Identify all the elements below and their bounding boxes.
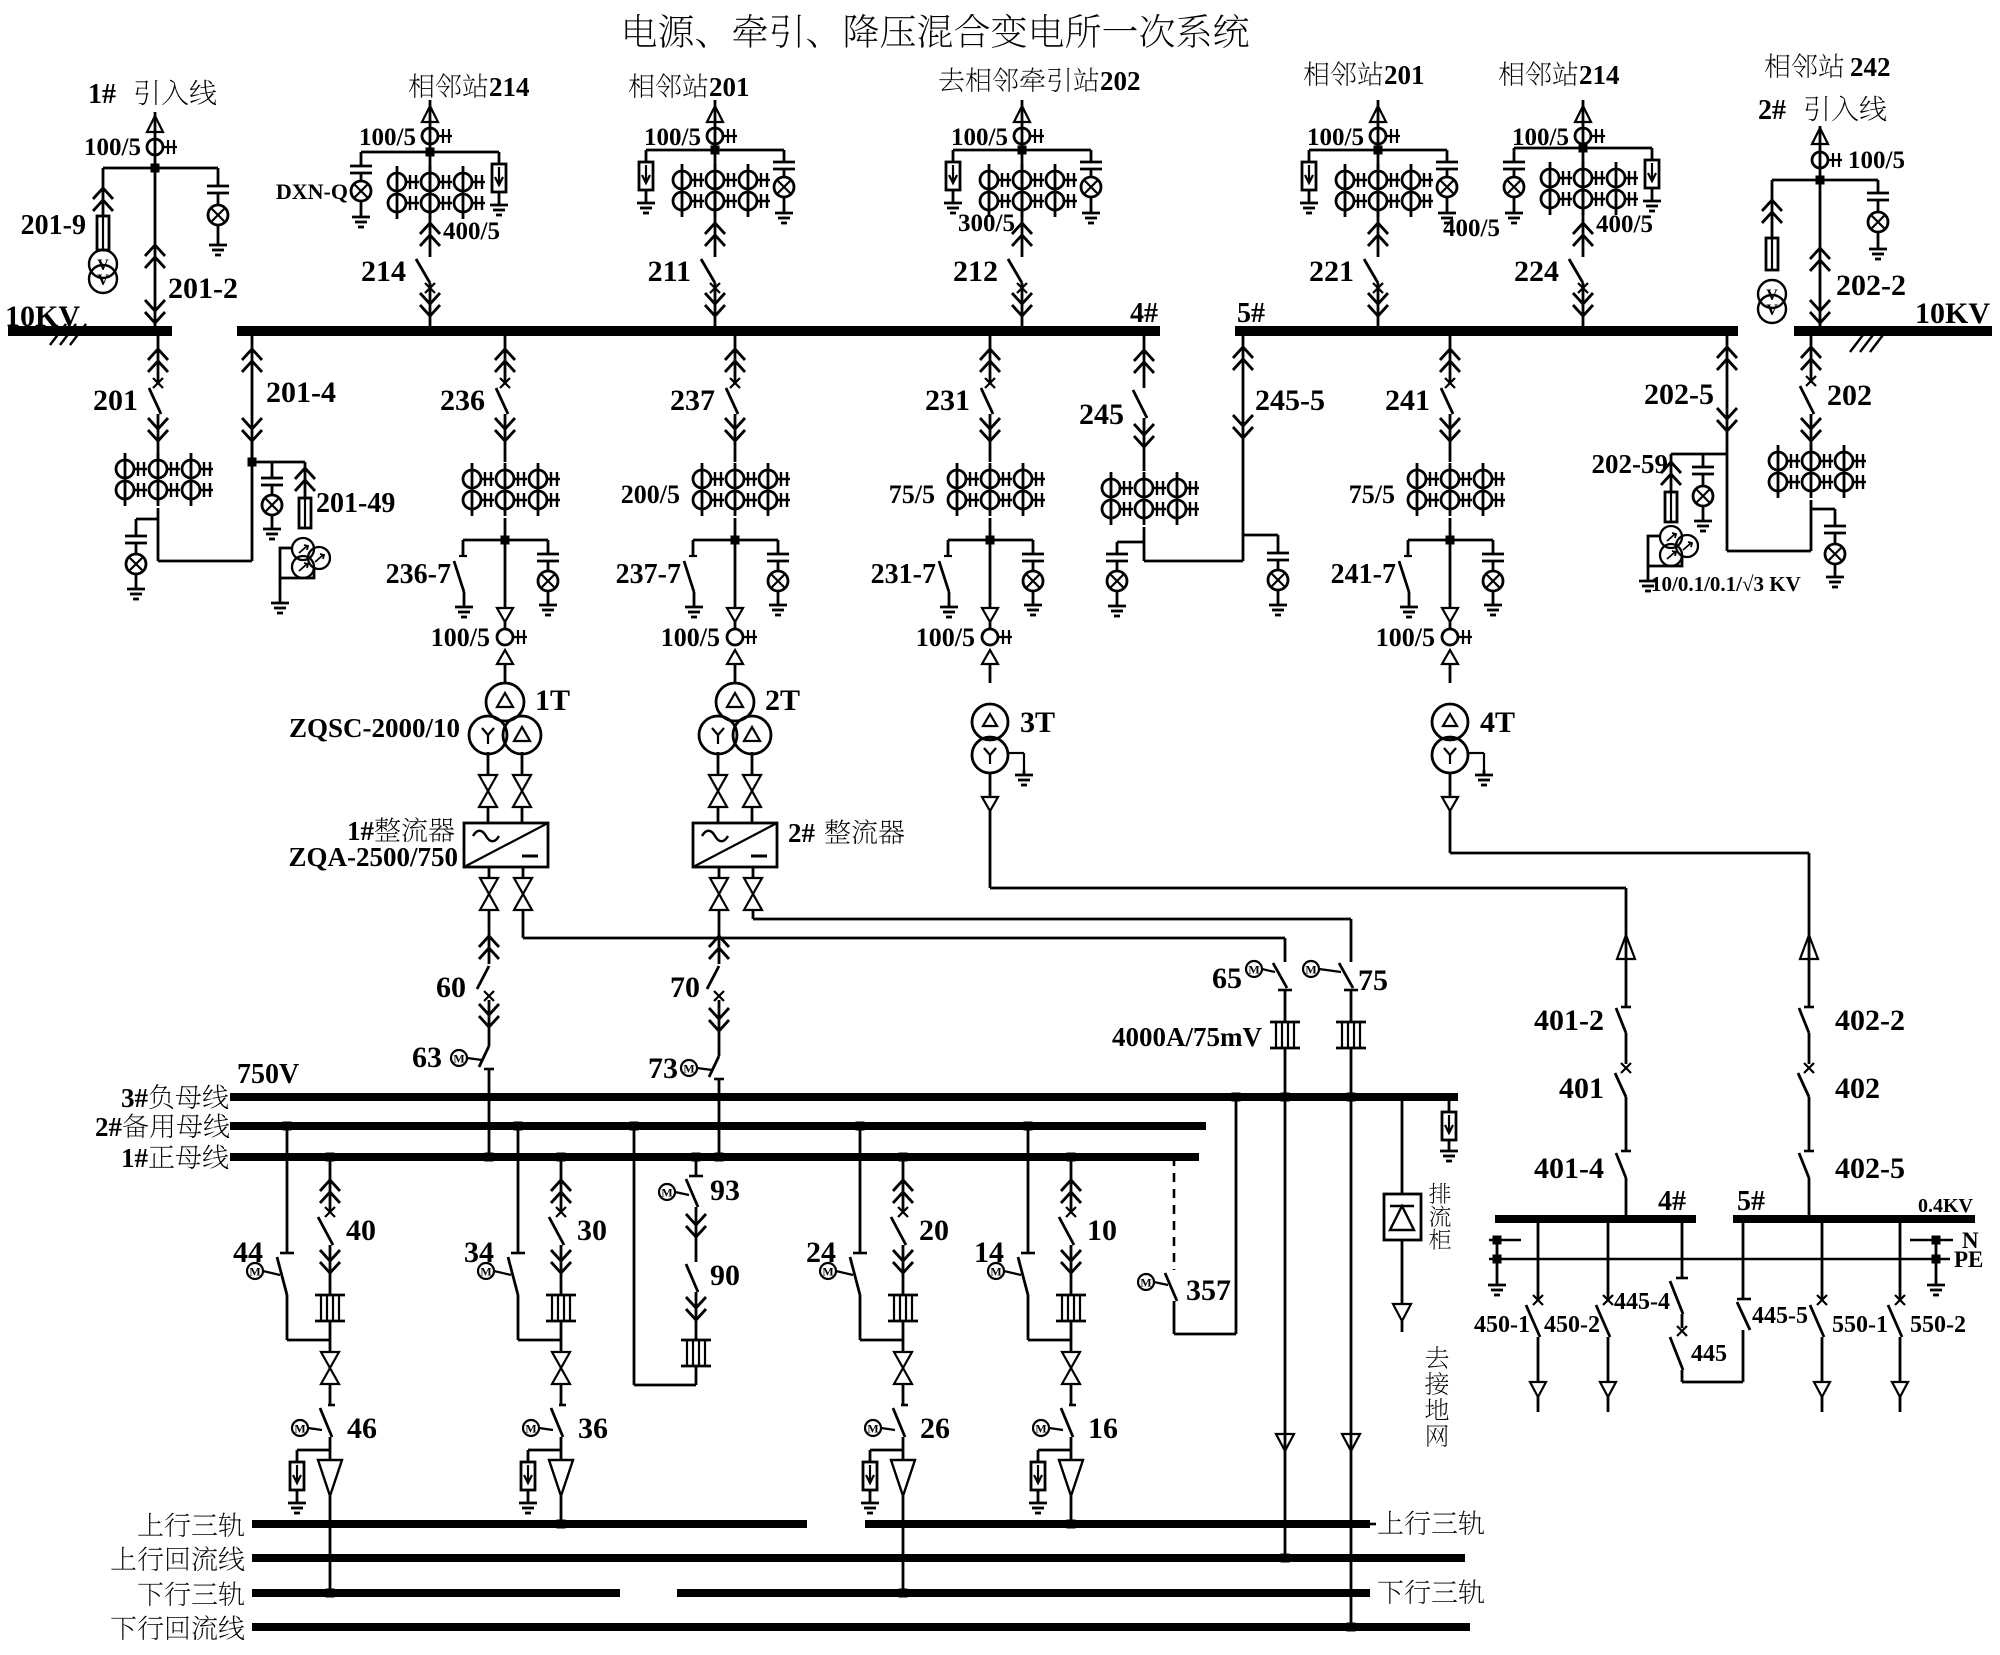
node on 1# bus: [715, 1153, 724, 1162]
motor link 24: [836, 1271, 853, 1275]
withdrawable contact down 60: [479, 1004, 499, 1015]
wire: [1090, 170, 1093, 176]
svg-text:550-2: 550-2: [1910, 1312, 1966, 1338]
lamp: [1693, 486, 1713, 506]
withdrawable contact down 245-5: [1233, 415, 1253, 426]
wire 10 below shunt: [1070, 1321, 1073, 1352]
withdrawable contact down 20: [893, 1250, 913, 1261]
label 下行回流线: [111, 1616, 136, 1640]
breaker 93 contact bar: [689, 1175, 703, 1178]
4T neutral ground: [1468, 752, 1484, 754]
wire: [989, 622, 992, 629]
wire: [1899, 1397, 1902, 1412]
svg-text:212: 212: [953, 255, 998, 288]
wire 201-4 down: [251, 441, 254, 561]
arrester: [1031, 1462, 1045, 1490]
wire 237: [734, 540, 737, 608]
wire branch: [645, 150, 648, 162]
feeder 44 wire: [286, 1126, 289, 1253]
withdrawable contact down 221: [1368, 293, 1388, 304]
svg-text:M: M: [1305, 963, 1316, 977]
capacitor: [537, 553, 559, 556]
wire rectifier2 to shunt 75: [752, 910, 755, 919]
svg-text:211: 211: [648, 255, 691, 288]
svg-text:236: 236: [440, 384, 485, 417]
wire 237-7 to ground: [693, 592, 696, 602]
svg-text:2T: 2T: [765, 684, 800, 717]
wire 4T output to 402: [1808, 853, 1811, 935]
svg-text:231-7: 231-7: [871, 559, 936, 590]
svg-text:M: M: [822, 1265, 833, 1279]
branch wire lamp 245-5: [1243, 534, 1278, 537]
motor link 75: [1319, 969, 1341, 972]
wire 231: [989, 540, 992, 608]
svg-text:10: 10: [1087, 1214, 1117, 1247]
node PE right: [1932, 1255, 1941, 1264]
contact bar 231-7: [944, 555, 952, 557]
CT cluster 245: [1110, 472, 1113, 525]
withdrawable contact down 236: [495, 418, 515, 429]
withdrawable contact down 201-4: [242, 418, 262, 429]
wire 46: [329, 1437, 332, 1460]
arrowhead down 450-2: [1600, 1382, 1616, 1397]
svg-text:402: 402: [1835, 1072, 1880, 1105]
svg-text:401-4: 401-4: [1534, 1152, 1604, 1185]
motor link 357: [1154, 1282, 1168, 1285]
node on rail: [557, 1520, 566, 1529]
breaker 445-4 blade: [1670, 1281, 1683, 1314]
x contact 221: [1373, 283, 1383, 293]
svg-text:ZQSC-2000/10: ZQSC-2000/10: [289, 713, 460, 743]
feeder 237 wire from bus: [734, 331, 737, 383]
CT cluster 236: [471, 463, 474, 516]
wire: [217, 194, 220, 204]
withdrawable contact down 93: [686, 1214, 706, 1225]
ground: [1090, 208, 1093, 213]
x contact 211: [710, 283, 720, 293]
svg-text:73: 73: [648, 1052, 678, 1085]
node PE left: [1493, 1255, 1502, 1264]
svg-text:202-5: 202-5: [1644, 378, 1714, 411]
CT cluster 224: [1549, 162, 1552, 215]
svg-text:16: 16: [1088, 1412, 1118, 1445]
withdrawable contact up 20: [893, 1180, 913, 1191]
x contact 40: [325, 1207, 335, 1217]
node on rail: [899, 1589, 908, 1598]
motor link 34: [494, 1271, 511, 1275]
svg-text:46: 46: [347, 1412, 377, 1445]
svg-text:36: 36: [578, 1412, 608, 1445]
branch wire: [693, 539, 778, 542]
ground: [1651, 196, 1654, 201]
wire 245 down: [1143, 527, 1146, 561]
feeder 10 wire: [1070, 1157, 1073, 1180]
wire: [1449, 622, 1452, 629]
wire 357 to 3# bus: [1173, 1301, 1176, 1334]
drawout bowtie 30: [552, 1352, 570, 1368]
svg-text:2#: 2#: [1758, 95, 1786, 126]
wire 236: [504, 540, 507, 608]
branch wire 211: [646, 149, 784, 152]
wire 4T to 402: [1449, 811, 1452, 853]
wire 237-7: [692, 540, 695, 556]
withdrawable contact down 245: [1134, 424, 1154, 435]
wire 245: [1143, 418, 1146, 471]
withdrawable contact down 70: [709, 1008, 729, 1019]
wire 14 join: [1027, 1295, 1030, 1340]
lamp: [1081, 177, 1101, 197]
junction node 221: [1374, 146, 1383, 155]
svg-text:90: 90: [710, 1259, 740, 1292]
wire 24 join: [859, 1295, 862, 1340]
feeder 40 outgoing arrow: [318, 1460, 342, 1496]
svg-text:400/5: 400/5: [1443, 215, 1500, 242]
withdrawable contact down 212: [1012, 293, 1032, 304]
svg-text:63: 63: [412, 1041, 442, 1074]
LV feeder 550-1 wire: [1821, 1223, 1824, 1300]
wire cap branch 202-5: [1702, 454, 1705, 468]
withdrawable contact up 201: [148, 349, 168, 360]
wire 202 below cluster: [1810, 500, 1813, 551]
wire: [777, 562, 780, 570]
disconnector 402 blade: [1798, 1073, 1809, 1097]
shunt 20: [888, 1294, 918, 1297]
arrester: [863, 1462, 877, 1490]
svg-text:DXN-Q: DXN-Q: [276, 179, 348, 204]
breaker 65 contact bar: [1278, 989, 1292, 992]
wire: [488, 1000, 491, 1046]
VT frame: [1648, 536, 1682, 566]
withdrawable contact up 201-4: [242, 349, 262, 360]
wire cap branch: [271, 462, 274, 479]
junction node 231-7 head: [986, 536, 995, 545]
motor link 36: [539, 1428, 553, 1430]
breaker 36 contact bar: [559, 1404, 566, 1407]
label 上行回流线: [111, 1547, 136, 1570]
CT 100/5 224: [1575, 128, 1591, 144]
capacitor: [767, 553, 789, 556]
wire 236-7 to ground: [463, 592, 466, 602]
LV feeder 550-2 wire: [1899, 1223, 1902, 1300]
wire 241 to junction: [1449, 518, 1452, 540]
wire 10: [1070, 1245, 1073, 1295]
feeder 201 wire from bus: [157, 331, 160, 383]
branch wire 224: [1514, 147, 1652, 150]
wire 1T outputs: [487, 752, 490, 775]
ground: [1032, 600, 1035, 605]
wire shunt to 3# bus: [1350, 1048, 1353, 1097]
svg-text:M: M: [525, 1422, 536, 1436]
drawout contact down: [727, 608, 743, 622]
wire: [1537, 1397, 1540, 1412]
wire: [1607, 1397, 1610, 1412]
shunt 75: [1336, 1021, 1366, 1024]
wire: [777, 592, 780, 600]
CT cluster 202: [1777, 445, 1780, 498]
wire right branch: [547, 540, 550, 555]
motor link 93: [675, 1192, 689, 1195]
node on 2# bus: [630, 1122, 639, 1131]
ground: [1446, 208, 1449, 213]
breaker 450-1 blade: [1526, 1305, 1540, 1337]
x contact 212: [1017, 283, 1027, 293]
wire 4T output: [1449, 773, 1452, 797]
drawout bowtie: [709, 775, 727, 791]
svg-text:357: 357: [1186, 1274, 1231, 1307]
junction node 241-7 head: [1446, 536, 1455, 545]
CT 100/5 221: [1370, 128, 1386, 144]
motor 14: [988, 1263, 1004, 1279]
wire 236 to junction: [504, 518, 507, 540]
wire: [1877, 233, 1880, 244]
wire: [1821, 1397, 1824, 1412]
svg-text:ZQA-2500/750: ZQA-2500/750: [288, 842, 458, 872]
ground: [1877, 244, 1880, 249]
wire 65 column: [1284, 938, 1287, 962]
svg-text:4T: 4T: [1480, 706, 1515, 739]
x contact 30: [556, 1207, 566, 1217]
label 相邻站201 left: [629, 74, 654, 98]
wire: [1492, 592, 1495, 600]
wire 2T outputs: [717, 752, 720, 775]
rectifier 2 output wires: [718, 867, 721, 878]
capacitor: [1482, 553, 1504, 556]
withdrawable contact down 202: [1801, 418, 1821, 429]
wire 201-9 branch: [102, 168, 105, 216]
lamp: [1107, 571, 1127, 591]
voltage transformer VV 201-9: [89, 250, 117, 278]
LV feeder 450-2 wire: [1607, 1223, 1610, 1300]
label 去相邻牵引站202: [939, 67, 964, 91]
wire branch: [360, 152, 363, 166]
wire: [1537, 1337, 1540, 1382]
lamp: [1437, 177, 1457, 197]
withdrawable contact up 202-2: [1810, 248, 1830, 259]
breaker 65 blade: [1273, 963, 1287, 988]
withdrawable contact up 60: [479, 936, 499, 947]
lamp: [1504, 177, 1524, 197]
arrester: [639, 162, 653, 190]
arrester: [290, 1462, 304, 1490]
svg-text:400/5: 400/5: [443, 218, 500, 245]
x contact 10: [1066, 1207, 1076, 1217]
node feeder 44 on 2# bus: [283, 1122, 292, 1131]
x contact 401: [1621, 1063, 1631, 1073]
withdrawable contact up 202-5: [1717, 347, 1737, 358]
motor 357: [1138, 1274, 1154, 1290]
wire: [1607, 1337, 1610, 1382]
drawout contact: [1393, 1304, 1411, 1321]
disconnector 211 blade: [701, 259, 715, 283]
svg-text:65: 65: [1212, 962, 1242, 995]
node feeder 14 on 2# bus: [1024, 1122, 1033, 1131]
arrester branch 46: [297, 1449, 330, 1452]
svg-text:5#: 5#: [1737, 1186, 1765, 1217]
svg-text:450-2: 450-2: [1544, 1312, 1600, 1338]
arrowhead up 214L: [422, 106, 438, 122]
breaker 75 contact bar: [1344, 989, 1358, 992]
arrester: [521, 1462, 535, 1490]
N conductor left stub: [1489, 1239, 1521, 1242]
shunt 10: [1056, 1294, 1086, 1297]
svg-text:3#: 3#: [121, 1083, 149, 1113]
ground: [360, 212, 363, 217]
x contact 241: [1445, 378, 1455, 388]
capacitor: [1503, 161, 1525, 164]
label 上行三轨 right: [1370, 1523, 1376, 1526]
wire 201-49: [304, 462, 307, 498]
wire 20 below shunt: [902, 1321, 905, 1352]
wire: [1821, 1337, 1824, 1382]
disconnector 231 blade: [981, 388, 993, 414]
wire N-PE ground right: [1935, 1240, 1938, 1280]
x contact 201: [153, 378, 163, 388]
wire: [217, 226, 220, 240]
feeder 231 wire from bus: [989, 331, 992, 383]
disconnector 214 blade: [416, 259, 430, 283]
wire: [1625, 1097, 1628, 1151]
wire: [1808, 1033, 1811, 1064]
node on 3# bus: [1347, 1093, 1356, 1102]
disconnector 221 blade: [1364, 259, 1378, 283]
wire branch: [1446, 150, 1449, 162]
withdrawable contact down 90: [686, 1297, 706, 1308]
breaker 14 contact bar: [1021, 1252, 1035, 1255]
lamp: [538, 571, 558, 591]
junction node 212: [1018, 146, 1027, 155]
branch wire 212: [953, 149, 1091, 152]
junction node 224: [1579, 144, 1588, 153]
wire: [547, 562, 550, 570]
disconnector 401 blade: [1615, 1073, 1626, 1097]
wire: [1834, 534, 1837, 543]
node on 3# bus: [1281, 1093, 1290, 1102]
breaker 36 blade: [551, 1408, 563, 1437]
CT 100/5: [727, 629, 743, 645]
wire 202-59: [1670, 454, 1673, 492]
breaker 16 contact bar: [1069, 1404, 1076, 1407]
breaker 24 contact bar: [853, 1252, 867, 1255]
arrester at 3# bus end: [1448, 1101, 1451, 1112]
ground: [1513, 208, 1516, 213]
drawout contact: [1442, 797, 1458, 811]
CT cluster 237: [701, 463, 704, 516]
node feeder 40 on 1# bus: [326, 1153, 335, 1162]
node on rail: [326, 1589, 335, 1598]
tie wire 245 to 245-5: [1144, 560, 1243, 563]
breaker 16 blade: [1061, 1408, 1073, 1437]
breaker 75 blade: [1339, 963, 1353, 988]
feeder 10 outgoing arrow: [1059, 1460, 1083, 1496]
label 下行三轨 right: [1378, 1580, 1403, 1604]
contact bar 241-7: [1404, 555, 1412, 557]
x contact 214: [425, 283, 435, 293]
svg-text:445: 445: [1691, 1341, 1727, 1367]
svg-text:100/5: 100/5: [661, 623, 720, 652]
svg-text:100/5: 100/5: [1376, 623, 1435, 652]
rail 上行回流线: [252, 1554, 1465, 1562]
branch wire 201-49: [252, 461, 305, 464]
breaker 46 contact bar: [328, 1404, 335, 1407]
CT cluster 214L: [396, 166, 399, 219]
svg-text:M: M: [867, 1422, 878, 1436]
rail 下行三轨 left segment: [252, 1589, 620, 1597]
arrowhead up 212: [1014, 106, 1030, 122]
breaker 450-2 blade: [1596, 1305, 1610, 1337]
capacitor: [1080, 161, 1102, 164]
wire 65 to shunt: [1284, 990, 1287, 1022]
fuse 201-49: [299, 498, 311, 528]
label 下行三轨 left: [138, 1582, 163, 1606]
svg-text:M: M: [683, 1062, 694, 1076]
disconnector 202 blade: [1800, 386, 1814, 414]
drainage cabinet box: [1384, 1194, 1421, 1240]
svg-text:445-5: 445-5: [1752, 1303, 1808, 1329]
wire: [560, 1178, 563, 1212]
node feeder 34 on 2# bus: [514, 1122, 523, 1131]
branch wire lamp 245: [1117, 541, 1144, 544]
wire right branch: [1492, 540, 1495, 555]
motor 46: [292, 1420, 308, 1436]
incoming line 211 main wire: [714, 100, 717, 257]
motor 34: [478, 1263, 494, 1279]
breaker 402-2 contact bar: [1804, 1006, 1814, 1009]
wire: [296, 1490, 299, 1498]
svg-text:30: 30: [577, 1214, 607, 1247]
CT 100/5: [982, 629, 998, 645]
withdrawable contact up 224: [1573, 223, 1593, 234]
ground: [296, 1498, 299, 1503]
disconnector 445 blade: [1670, 1337, 1683, 1370]
lamp: [208, 205, 228, 225]
incoming line 2# main wire: [1819, 126, 1822, 331]
ground: [527, 1498, 530, 1503]
branch wire: [1408, 539, 1493, 542]
wire below drainage cabinet: [1401, 1240, 1404, 1304]
feeder 202-5 wire from 5# bus: [1726, 331, 1729, 551]
wire: [1446, 198, 1449, 208]
withdrawable contact 201-9: [93, 188, 113, 199]
wire: [1037, 1490, 1040, 1498]
disconnector 60 blade: [477, 966, 489, 989]
wire 202 down: [1810, 414, 1813, 461]
feeder 202 wire from right 10KV bus: [1810, 331, 1813, 383]
x contact 450-2: [1603, 1295, 1613, 1305]
LV feeder 450-1 wire: [1537, 1223, 1540, 1300]
wire 36: [560, 1437, 563, 1460]
arrowhead down 450-1: [1530, 1382, 1546, 1397]
withdrawable contact down 224: [1573, 293, 1593, 304]
svg-text:M: M: [1035, 1422, 1046, 1436]
label 相邻站214 right: [1499, 62, 1524, 86]
svg-text:100/5: 100/5: [1848, 147, 1905, 174]
motor link 26: [881, 1428, 895, 1430]
x contact 231: [985, 378, 995, 388]
ground: [1935, 1280, 1938, 1285]
wire: [1808, 1097, 1811, 1151]
feeder 245 wire from 4# bus: [1143, 331, 1146, 388]
ground: [271, 524, 274, 529]
ground: [547, 600, 550, 605]
svg-text:450-1: 450-1: [1474, 1312, 1530, 1338]
disconnector 30 blade: [549, 1217, 564, 1245]
wire: [504, 622, 507, 629]
breaker 14 blade: [1018, 1257, 1028, 1295]
svg-text:402-5: 402-5: [1835, 1152, 1905, 1185]
withdrawable contact down 201-2: [145, 300, 165, 311]
CT 100/5 2#: [1812, 152, 1828, 168]
withdrawable contact up 231: [980, 349, 1000, 360]
